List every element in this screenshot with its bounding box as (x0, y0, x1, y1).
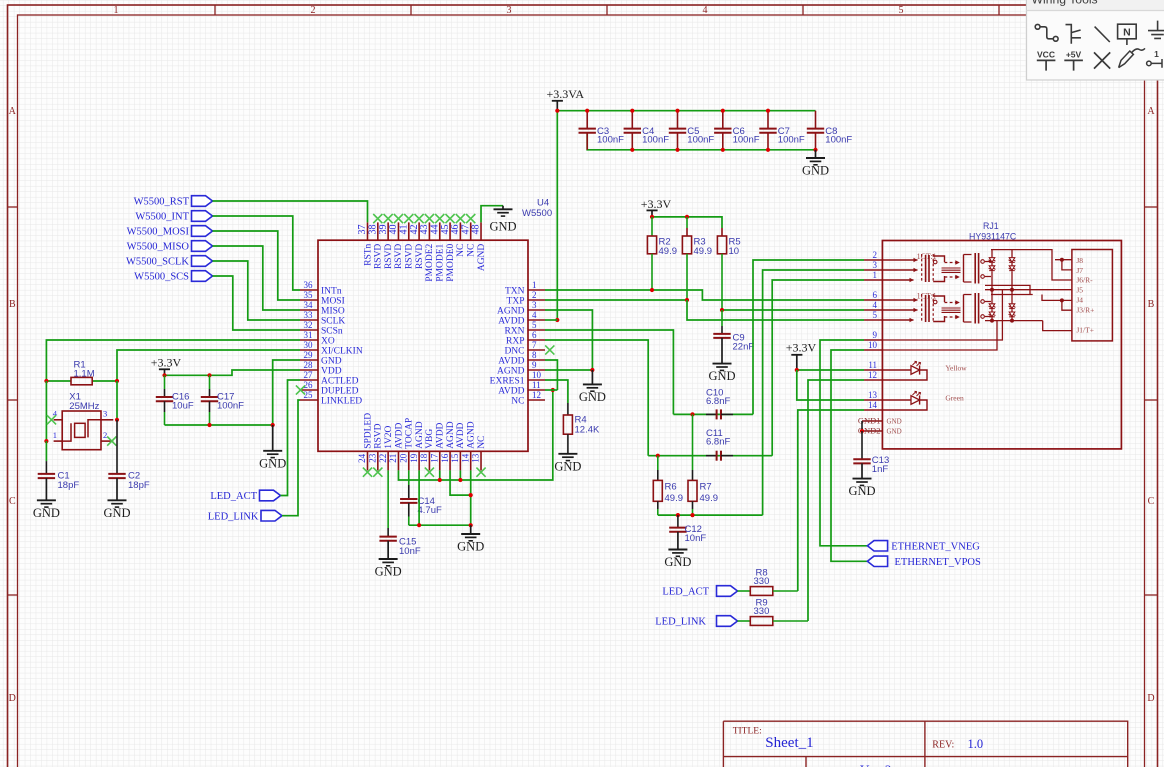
svg-text:100nF: 100nF (778, 135, 805, 146)
net port W5500_RST (134, 196, 213, 208)
title block (723, 721, 1127, 767)
svg-text:GND: GND (457, 540, 484, 554)
svg-text:1.0: 1.0 (968, 737, 984, 751)
pin 47 (NC) U4 top (460, 222, 476, 257)
svg-text:NC: NC (467, 244, 477, 257)
svg-text:AGND: AGND (497, 306, 525, 316)
net port W5500_INT (135, 211, 212, 223)
pin 13 RJ1 (864, 390, 882, 400)
wire +3.3VA vertical to AVDD (556, 111, 558, 320)
junction C6 bottom (721, 148, 725, 152)
svg-text:9: 9 (532, 360, 537, 370)
svg-text:100nF: 100nF (642, 135, 669, 146)
svg-text:ACTLED: ACTLED (321, 376, 359, 386)
svg-text:U4: U4 (537, 198, 549, 209)
junction C6 top (721, 109, 725, 113)
net port W5500_SCLK (126, 256, 213, 268)
palette icon net label (1118, 24, 1137, 45)
junction J4 tap (1060, 298, 1064, 302)
junction C16 top (162, 373, 166, 377)
palette icon ground (1148, 21, 1164, 39)
svg-text:W5500_INT: W5500_INT (135, 212, 189, 223)
wire TXN pin1 to RJ1 pin6 (545, 290, 864, 300)
ground below C9 (708, 364, 735, 384)
capacitor C10 6.8nF (706, 388, 733, 420)
svg-text:100nF: 100nF (597, 135, 624, 146)
pin 6 (RXP) U4 right (506, 330, 545, 346)
svg-text:Yellow: Yellow (945, 363, 967, 372)
wire C16/C17 bottoms GND rail (165, 424, 273, 426)
svg-text:AVDD: AVDD (498, 356, 524, 366)
svg-text:4: 4 (703, 5, 708, 16)
svg-text:GND: GND (664, 555, 691, 569)
svg-text:330: 330 (754, 606, 770, 617)
svg-text:NC: NC (456, 244, 466, 257)
svg-text:+3.3V: +3.3V (786, 341, 817, 355)
svg-text:+3.3V: +3.3V (151, 355, 182, 369)
svg-text:W5500_SCLK: W5500_SCLK (126, 257, 189, 268)
svg-text:GND: GND (321, 356, 342, 366)
capacitor C8 100nF (807, 111, 853, 150)
pin 6 RJ1 (864, 290, 882, 300)
capacitor C3 100nF (579, 111, 625, 150)
wire W5500_SCLK to pin 33 (213, 261, 301, 320)
ground above U4 (pin 48 AGND) (481, 206, 517, 234)
wire AVDD bottom rail (398, 390, 552, 480)
svg-text:15: 15 (450, 453, 460, 463)
wire XI/CLKIN to crystal (117, 350, 300, 381)
junction J8 tap (1060, 258, 1064, 262)
pin 10 (EXRES1) U4 right (490, 370, 545, 386)
pin 44 (PMODE1) U4 top (429, 222, 445, 281)
junction C12 top (676, 513, 680, 517)
svg-text:32: 32 (304, 320, 313, 330)
junction C8 bottom (813, 148, 817, 152)
pin 33 (SCLK) U4 left (300, 310, 345, 326)
wire C11 row (648, 455, 772, 457)
junction GND rail (271, 423, 275, 427)
junction R1 right (115, 379, 119, 383)
svg-text:GND: GND (33, 506, 60, 520)
svg-text:11: 11 (868, 360, 877, 370)
pin 13 (NC) U4 bottom (471, 436, 487, 471)
junction X1 pin3 (115, 418, 119, 422)
svg-text:DNC: DNC (504, 346, 524, 356)
svg-text:3: 3 (103, 409, 107, 419)
wire R3 node to RJ1 pin5 (687, 300, 864, 320)
wire AVDD pin11 row (545, 389, 557, 391)
svg-text:SPDLED: SPDLED (363, 413, 373, 449)
wire AGND pin9 (545, 369, 592, 371)
ground below C2 (103, 478, 130, 520)
junction R3 top (685, 215, 689, 219)
svg-text:D: D (9, 693, 16, 704)
wire AVDD pin8 riser (545, 360, 557, 390)
svg-text:W5500_SCS: W5500_SCS (134, 272, 189, 283)
svg-text:1: 1 (114, 5, 119, 16)
palette icon pen (1119, 48, 1145, 67)
wire +3.3VA rail (557, 110, 815, 112)
pin GND1 RJ1 (858, 416, 883, 426)
junction AGND row right (469, 523, 473, 527)
no-connect X pin 26 DUPLED (296, 385, 305, 394)
svg-text:20: 20 (398, 453, 408, 463)
wire AVDD pin4 row (545, 319, 557, 321)
junction AGND pin19 (417, 523, 421, 527)
svg-text:Ver: 2: Ver: 2 (860, 762, 891, 767)
wire LED_ACT to ACTLED pin27 (281, 380, 301, 496)
svg-text:J6/R-: J6/R- (1076, 276, 1093, 285)
svg-text:ETHERNET_VNEG: ETHERNET_VNEG (891, 542, 980, 553)
pin 46 (NC) U4 top (450, 222, 466, 257)
pin 42 (RSVD) U4 top (409, 222, 425, 269)
svg-text:GND: GND (375, 565, 402, 579)
svg-text:21: 21 (388, 454, 398, 463)
no-connect X pin 42 (415, 214, 424, 223)
svg-text:+3.3VA: +3.3VA (547, 87, 585, 101)
pin 12 RJ1 (864, 370, 882, 380)
svg-text:+3.3V: +3.3V (641, 197, 672, 211)
ground below C8 (802, 150, 829, 178)
pin 8 (AVDD) U4 right (498, 350, 545, 366)
palette icon +5V (1064, 49, 1083, 70)
resistor R7 49.9 (688, 414, 718, 515)
svg-text:D: D (1147, 693, 1154, 704)
wiring tools palette (1027, 0, 1164, 80)
wire LED_LINK to LINKLED pin25 (282, 400, 300, 516)
svg-text:C: C (1148, 496, 1155, 507)
svg-text:NC: NC (511, 396, 524, 406)
svg-text:100nF: 100nF (733, 135, 760, 146)
svg-text:AGND: AGND (415, 421, 425, 449)
junction R7 top on C10 row (690, 412, 694, 416)
svg-text:J4: J4 (1076, 296, 1083, 305)
svg-text:3: 3 (873, 260, 878, 270)
pin 1 RJ1 (864, 270, 882, 280)
svg-text:Wiring Tools: Wiring Tools (1032, 0, 1098, 6)
resistor R3 49.9 (682, 228, 712, 300)
palette icon wire (1035, 24, 1058, 41)
svg-text:12: 12 (532, 390, 541, 400)
svg-text:AVDD: AVDD (436, 422, 446, 448)
svg-text:2: 2 (532, 290, 537, 300)
svg-text:A: A (9, 106, 17, 117)
svg-text:24: 24 (357, 453, 367, 463)
junction R5 bottom (720, 308, 724, 312)
svg-text:GND: GND (579, 390, 606, 404)
palette icon VCC (1037, 49, 1056, 70)
svg-text:16: 16 (440, 453, 450, 463)
pin 43 (PMODE2) U4 top (419, 222, 435, 281)
palette icon pin (1147, 49, 1162, 68)
power flag +3.3V (C16) (151, 355, 182, 375)
pin 24 (SPDLED) U4 bottom (357, 413, 373, 471)
ground right of U4 (AGND) (579, 370, 606, 404)
svg-text:49.9: 49.9 (665, 493, 684, 504)
power flag +3.3V (R2/R3/R5) (641, 197, 672, 217)
junction R7 bottom (690, 513, 694, 517)
pin 34 (MISO) U4 left (300, 300, 345, 316)
pin 12 (NC) U4 right (511, 390, 545, 406)
svg-text:GND: GND (887, 417, 902, 425)
RJ1 internal protection diodes (989, 250, 1016, 321)
wire R5 node to RJ1 pin4 (722, 309, 864, 311)
svg-text:AVDD: AVDD (394, 422, 404, 448)
svg-text:PMODE2: PMODE2 (425, 243, 435, 281)
svg-text:HY931147C: HY931147C (969, 231, 1017, 241)
no-connect X pin 40 (394, 214, 403, 223)
junction X1 pin1 (44, 439, 48, 443)
resistor R1 1.1M (46, 360, 117, 385)
svg-text:PMODE1: PMODE1 (436, 243, 446, 281)
pin GND2 RJ1 (858, 426, 883, 436)
wire AVDD pin15 tap (459, 470, 461, 480)
svg-text:6: 6 (532, 330, 537, 340)
wire GND pin29 (273, 360, 300, 425)
svg-text:5: 5 (899, 5, 904, 16)
svg-text:INTn: INTn (321, 286, 342, 296)
pin 48 (AGND) U4 top (471, 222, 487, 271)
power flag +3.3VA (547, 87, 585, 111)
svg-text:W5500_MISO: W5500_MISO (127, 242, 190, 253)
wire R3 top lead (686, 217, 688, 228)
svg-text:C: C (9, 496, 16, 507)
svg-text:27: 27 (304, 370, 314, 380)
ground below C13 (848, 479, 875, 499)
svg-text:AGND: AGND (467, 421, 477, 449)
svg-text:GND: GND (848, 484, 875, 498)
svg-text:2: 2 (311, 5, 316, 16)
pin 10 RJ1 (864, 340, 882, 350)
svg-text:1nF: 1nF (872, 464, 889, 475)
pin 11 (AVDD) U4 right (498, 380, 545, 396)
pin 18 (VBG) U4 bottom (419, 429, 435, 471)
wire RJ1 pin10 to ETHERNET_VPOS (831, 350, 867, 561)
net port LED_ACT (bottom) (662, 586, 737, 598)
wire AGND pin19 drop (418, 470, 420, 525)
svg-text:VDD: VDD (321, 366, 342, 376)
svg-text:6: 6 (873, 290, 878, 300)
ground below C12 (664, 550, 691, 570)
pin 15 (AVDD) U4 bottom (450, 422, 466, 470)
svg-text:4.7uF: 4.7uF (418, 505, 442, 516)
no-connect X pin 7 DNC (545, 345, 554, 354)
svg-text:1: 1 (532, 280, 537, 290)
no-connect X pin 23 (373, 468, 382, 477)
junction +3.3V pin11 (795, 368, 799, 372)
svg-text:25MHz: 25MHz (69, 401, 99, 412)
svg-text:W5500: W5500 (522, 208, 552, 219)
pin 41 (RSVD) U4 top (398, 222, 414, 269)
pin 2 RJ1 (864, 250, 882, 260)
wire AGND pin16 jog (450, 470, 471, 495)
svg-text:Green: Green (945, 393, 964, 402)
junction C4 bottom (630, 148, 634, 152)
svg-text:J5: J5 (1076, 285, 1083, 294)
wire W5500_MISO to pin 34 (213, 246, 301, 310)
svg-text:35: 35 (304, 290, 314, 300)
resistor R8 330 (738, 567, 798, 595)
pin 29 (GND) U4 left (300, 350, 342, 366)
svg-text:2: 2 (103, 430, 107, 440)
svg-text:VBG: VBG (425, 429, 435, 449)
svg-text:19: 19 (409, 453, 419, 463)
svg-text:XI/CLKIN: XI/CLKIN (321, 346, 363, 356)
junction C17 top (207, 373, 211, 377)
wire X1 pin1 to C1 (45, 441, 47, 461)
ground below C16/C17 rail (259, 425, 286, 470)
wire cap bank bottom rail (587, 133, 815, 150)
svg-text:29: 29 (304, 350, 314, 360)
wire AGND pin3 to ground (545, 310, 592, 370)
svg-text:1: 1 (53, 430, 57, 440)
pin 45 (PMODE0) U4 top (440, 222, 456, 281)
svg-text:13: 13 (868, 390, 878, 400)
svg-text:J7: J7 (1076, 266, 1083, 275)
svg-text:22: 22 (378, 454, 388, 463)
svg-text:3: 3 (507, 5, 512, 16)
svg-text:RSVD: RSVD (374, 244, 384, 269)
svg-text:GND: GND (802, 164, 829, 178)
svg-text:MISO: MISO (321, 306, 345, 316)
resistor R9 330 (738, 597, 809, 625)
wire +3.3V to RJ1 pin13 (797, 370, 864, 400)
svg-text:12.4K: 12.4K (575, 424, 600, 435)
no-connect X pin 39 (384, 214, 393, 223)
svg-text:34: 34 (304, 300, 314, 310)
svg-text:13: 13 (471, 453, 481, 463)
wire AGND pin14 drop (470, 470, 472, 525)
wire RJ1 pin14 to R8 (798, 410, 864, 591)
svg-text:GND: GND (887, 427, 902, 435)
no-connect X pin 43 (425, 214, 434, 223)
svg-text:GND: GND (708, 369, 735, 383)
transformer T1 1CT:1 (RJ1 internal) (882, 252, 991, 283)
wire R6/R7 bottom row to RJ1 pin3 riser (658, 514, 763, 516)
svg-text:1V2O: 1V2O (384, 425, 394, 448)
pin 37 (RSTn) U4 top (357, 222, 373, 265)
pin 5 RJ1 (864, 310, 882, 320)
svg-text:10: 10 (532, 370, 542, 380)
pin 14 RJ1 (864, 400, 882, 410)
capacitor C6 100nF (714, 111, 760, 150)
junction R6 top on C11 row (656, 454, 660, 458)
junction C4 top (630, 109, 634, 113)
svg-text:MOSI: MOSI (321, 296, 345, 306)
wire RJ1 pin9 to ETHERNET_VNEG (820, 340, 867, 546)
pin 23 (RSVD) U4 bottom (368, 423, 384, 470)
no-connect X X1 pin4 (47, 415, 56, 424)
svg-text:1: 1 (873, 270, 878, 280)
wire right rail to X1 pin3 (116, 381, 118, 420)
svg-text:GND: GND (103, 506, 130, 520)
svg-text:3: 3 (532, 300, 537, 310)
svg-text:5: 5 (873, 310, 878, 320)
wire RXN pin5 to C10 row (545, 330, 673, 414)
svg-text:LED_ACT: LED_ACT (662, 587, 709, 598)
net port W5500_SCS (134, 271, 212, 283)
net port W5500_MOSI (127, 226, 213, 238)
led Yellow (RJ1 internal) (882, 361, 967, 380)
capacitor C9 22nF (713, 310, 754, 364)
svg-text:AVDD: AVDD (498, 316, 524, 326)
junction diodes T2 (990, 319, 994, 323)
wire TXP pin2 row (545, 299, 687, 301)
wire left rail to X1 pin1 (45, 381, 47, 441)
svg-text:10nF: 10nF (685, 533, 707, 544)
svg-text:RSVD: RSVD (405, 244, 415, 269)
pin 9 (AGND) U4 right (497, 360, 545, 376)
svg-text:SCLK: SCLK (321, 316, 345, 326)
pin 2 (TXP) U4 right (507, 290, 545, 306)
capacitor C16 10uF (156, 375, 194, 425)
svg-text:100nF: 100nF (825, 135, 852, 146)
svg-text:6.8nF: 6.8nF (706, 436, 730, 447)
RJ1 inner contact box (1072, 250, 1113, 341)
capacitor C17 100nF (201, 375, 244, 425)
resistor R6 49.9 (653, 456, 683, 515)
ground below R4 (554, 454, 581, 474)
no-connect X pin 41 (404, 214, 413, 223)
pin 5 (RXN) U4 right (504, 320, 545, 336)
wire W5500_INT to pin 36 (213, 216, 301, 290)
wire AGND bottom row (409, 524, 471, 526)
wire +3.3V rail to VDD pin28 (165, 370, 301, 375)
ground below C1 (33, 478, 60, 520)
net port W5500_MISO (127, 241, 213, 253)
svg-text:10: 10 (868, 340, 878, 350)
svg-text:22nF: 22nF (733, 341, 755, 352)
pin 16 (AGND) U4 bottom (440, 421, 456, 470)
svg-text:GND: GND (489, 219, 516, 233)
capacitor C12 10nF (669, 515, 706, 549)
wire RJ1 pin2 riser (753, 260, 864, 414)
svg-text:AVDD: AVDD (498, 386, 524, 396)
svg-text:REV:: REV: (932, 740, 954, 751)
svg-text:18pF: 18pF (58, 480, 80, 491)
junction R1 left (44, 379, 48, 383)
svg-text:+5V: +5V (1066, 49, 1082, 59)
svg-text:31: 31 (304, 330, 313, 340)
svg-text:ETHERNET_VPOS: ETHERNET_VPOS (895, 557, 981, 568)
pin 22 (1V2O) U4 bottom (378, 425, 394, 470)
svg-text:J1/T+: J1/T+ (1076, 326, 1094, 335)
svg-text:RJ1: RJ1 (983, 221, 999, 231)
no-connect X pin 38 (373, 214, 382, 223)
pin 39 (RSVD) U4 top (378, 222, 394, 269)
svg-text:LED_ACT: LED_ACT (210, 491, 257, 502)
pin 14 (AGND) U4 bottom (460, 421, 476, 470)
svg-text:NC: NC (477, 436, 487, 449)
junction AGND pin9 (590, 368, 594, 372)
junction C5 top (675, 109, 679, 113)
svg-text:49.9: 49.9 (700, 493, 719, 504)
capacitor C4 100nF (624, 111, 670, 150)
pin 26 (DUPLED) U4 left (300, 380, 359, 396)
capacitor C2 18pF (108, 420, 150, 491)
net port LED_LINK (left) (208, 510, 282, 522)
crystal X1 25MHz (53, 392, 114, 450)
pin 32 (SCSn) U4 left (300, 320, 343, 336)
palette icon bus entry (1095, 27, 1110, 42)
pin 20 (TOCAP) U4 bottom (398, 418, 414, 471)
pin 4 RJ1 (864, 300, 882, 310)
pin 30 (XI/CLKIN) U4 left (300, 340, 363, 356)
svg-text:TITLE:: TITLE: (733, 726, 762, 736)
svg-text:10nF: 10nF (399, 546, 421, 557)
pin 35 (MOSI) U4 left (300, 290, 345, 306)
no-connect X pin 24 (363, 468, 372, 477)
